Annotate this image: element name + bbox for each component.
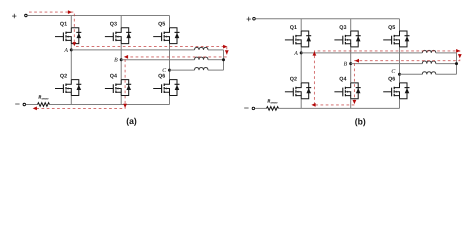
- svg-text:(a): (a): [126, 116, 137, 126]
- wire bottom rail right: [279, 107, 400, 109]
- body diode of Q3: [121, 28, 131, 44]
- wire phase B winding to star: [208, 59, 224, 61]
- current path (a): phase A to B, back through Q4 and Rsense: [35, 47, 227, 109]
- svg-text:Rsense: Rsense: [38, 95, 49, 101]
- wire phase B: [351, 63, 423, 65]
- wire phase A winding to star: [208, 49, 224, 51]
- svg-text:Q5: Q5: [388, 25, 395, 31]
- body diode of Q4: [121, 80, 131, 96]
- wire phase C: [400, 73, 423, 75]
- wire leg Q1/Q2: [70, 16, 72, 105]
- wire bottom rail right: [50, 104, 170, 106]
- body diode of Q1: [71, 28, 81, 44]
- body diode of Q3: [351, 31, 361, 47]
- node B: [120, 58, 123, 61]
- wire top rail: [27, 15, 169, 17]
- wire star point: [223, 50, 225, 70]
- wire phase C winding to star: [208, 69, 224, 71]
- wire leg Q3/Q4: [350, 19, 352, 109]
- transistor Q6: [153, 80, 169, 96]
- inductor winding phase C: [195, 68, 209, 71]
- wire phase A winding to star: [436, 52, 457, 54]
- resistor Rsense: [267, 107, 279, 111]
- svg-text:Q3: Q3: [110, 22, 117, 28]
- transistor Q1: [55, 28, 71, 44]
- transistor Q5: [153, 28, 169, 44]
- junction star point: [222, 58, 225, 61]
- svg-text:Q3: Q3: [339, 25, 346, 31]
- current path (a): supply through Q1: [29, 12, 74, 44]
- wire phase B winding to star: [436, 63, 457, 65]
- svg-text:A: A: [63, 48, 68, 54]
- wire leg Q3/Q4: [120, 16, 122, 105]
- inductor winding phase B: [422, 61, 436, 64]
- transistor Q4: [334, 83, 350, 99]
- transistor Q1: [285, 31, 301, 47]
- svg-text:+: +: [12, 11, 17, 21]
- wire phase A: [301, 52, 422, 54]
- svg-text:Q2: Q2: [60, 73, 67, 79]
- transistor Q3: [105, 28, 121, 44]
- svg-text:Rsense: Rsense: [267, 99, 278, 105]
- svg-text:Q6: Q6: [158, 73, 165, 79]
- node C: [398, 73, 401, 76]
- svg-text:+: +: [246, 14, 251, 24]
- wire leg Q5/Q6: [169, 16, 171, 105]
- svg-text:Q4: Q4: [339, 77, 346, 83]
- body diode of Q2: [71, 80, 81, 96]
- node A: [70, 48, 73, 51]
- resistor Rsense: [38, 103, 50, 107]
- svg-text:A: A: [293, 51, 298, 57]
- node C: [168, 69, 171, 72]
- transistor Q2: [55, 80, 71, 96]
- wire phase C: [170, 69, 195, 71]
- svg-text:−: −: [244, 103, 249, 113]
- body diode of Q6: [400, 83, 410, 99]
- transistor Q3: [334, 31, 350, 47]
- current path (b): freewheeling loop through Q2 diode and Q4: [314, 51, 459, 105]
- wire top rail: [255, 18, 399, 20]
- wire leg Q5/Q6: [399, 19, 401, 109]
- inductor winding phase C: [422, 72, 436, 75]
- wire phase B: [121, 59, 194, 61]
- wire bottom rail left: [26, 104, 38, 106]
- svg-text:Q1: Q1: [60, 22, 67, 28]
- inductor winding phase A: [195, 47, 209, 50]
- wire phase C winding to star: [436, 73, 457, 75]
- svg-text:C: C: [391, 69, 395, 75]
- body diode of Q4: [351, 83, 361, 99]
- junction star point: [455, 62, 458, 65]
- svg-text:B: B: [344, 62, 348, 68]
- wire phase A: [71, 49, 194, 51]
- inductor winding phase B: [195, 57, 209, 60]
- body diode of Q5: [400, 31, 410, 47]
- svg-text:−: −: [15, 99, 20, 109]
- svg-text:Q4: Q4: [110, 73, 117, 79]
- transistor Q5: [383, 31, 399, 47]
- svg-text:B: B: [114, 58, 118, 64]
- node B: [349, 62, 352, 65]
- svg-text:Q2: Q2: [290, 77, 297, 83]
- body diode of Q6: [170, 80, 180, 96]
- body diode of Q2: [301, 83, 311, 99]
- body diode of Q1: [301, 31, 311, 47]
- transistor Q4: [105, 80, 121, 96]
- svg-text:Q6: Q6: [388, 77, 395, 83]
- transistor Q2: [285, 83, 301, 99]
- svg-text:Q1: Q1: [290, 25, 297, 31]
- body diode of Q5: [170, 28, 180, 44]
- transistor Q6: [383, 83, 399, 99]
- wire leg Q1/Q2: [300, 19, 302, 109]
- wire star point: [456, 53, 458, 74]
- node A: [300, 51, 303, 54]
- inductor winding phase A: [422, 50, 436, 53]
- svg-text:(b): (b): [355, 117, 366, 127]
- wire bottom rail left: [255, 107, 267, 109]
- svg-text:Q5: Q5: [158, 22, 165, 28]
- svg-text:C: C: [162, 68, 166, 74]
